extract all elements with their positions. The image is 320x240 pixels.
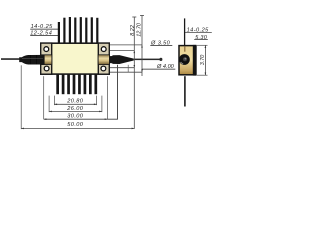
long section line bottom-left: [44, 65, 118, 119]
short extension v2: [127, 65, 129, 72]
svg-text:3.70: 3.70: [200, 55, 206, 66]
ferrule pin line: [134, 59, 160, 61]
end view callout 14-0.25: [185, 28, 212, 34]
end view leader line: [184, 18, 186, 45]
arrows 12.70 on v4: [141, 45, 143, 48]
extension line h2: [110, 71, 142, 73]
end view ferrule circle: [179, 54, 190, 65]
mounting hole bottom-right: [101, 66, 106, 71]
3.70 dim extension top: [197, 44, 208, 46]
dim 50.00 line: [21, 127, 134, 129]
tick v4 top: [140, 14, 144, 16]
dim 26.00 line: [49, 110, 102, 112]
3.70 dim line: [204, 45, 206, 75]
dim 30.00 extension lines: [43, 76, 45, 119]
svg-text:20.80: 20.80: [66, 99, 83, 105]
svg-text:5.30: 5.30: [195, 35, 208, 41]
svg-text:30.00: 30.00: [67, 113, 83, 119]
centerline below end view: [184, 76, 186, 106]
extension line h1: [110, 67, 134, 69]
mounting hole top-right: [101, 47, 106, 52]
boot highlight: [22, 57, 43, 59]
ferrule end blob: [159, 58, 162, 61]
end view center stub: [184, 46, 185, 51]
end view callout 5.30: [194, 35, 208, 41]
package outer body (top view): [41, 43, 109, 74]
bottom pins: [56, 74, 97, 94]
dim 26.00 extension lines: [48, 96, 50, 113]
top pins: [58, 17, 99, 43]
svg-text:50.00: 50.00: [67, 122, 83, 128]
dim 20.80 extension lines: [53, 96, 55, 106]
mounting hole top-left: [44, 47, 49, 52]
dim 30.00 arrows: [44, 118, 47, 120]
right flange block: [98, 43, 109, 74]
extension line y44.9 to v4: [110, 44, 142, 46]
dim line v4 (12.70): [141, 15, 143, 76]
pin callout 14-0.25: [30, 24, 58, 30]
callout Ø 3.50: [150, 40, 172, 46]
3.70 arrows: [205, 45, 207, 48]
end view right dark band: [193, 45, 197, 76]
mounting hole bottom-left: [44, 66, 49, 71]
tick v3 top: [132, 16, 136, 18]
svg-text:26.00: 26.00: [66, 106, 83, 112]
end view body: [179, 46, 196, 75]
left flange block: [41, 43, 52, 74]
pin callout 12-2.54: [30, 31, 58, 37]
callout Ø 4.00: [142, 64, 175, 70]
dim line v3 (8.22 / 50.00 right ext): [133, 17, 135, 129]
circle highlight: [181, 62, 184, 64]
fiber boot: [19, 55, 44, 65]
dim 20.80 line: [54, 103, 96, 105]
svg-text:12.70: 12.70: [137, 22, 143, 37]
dim 50.00 extension lines: [20, 65, 22, 129]
3.70 dim extension bottom: [197, 74, 208, 76]
arrows 8.22 on v3: [134, 50, 136, 53]
svg-text:8.22: 8.22: [130, 25, 136, 36]
output snout (side): [110, 55, 134, 64]
boot seams: [30, 55, 32, 64]
extension line y50.4 to v3: [110, 49, 134, 51]
fiber pigtail line: [1, 58, 20, 60]
